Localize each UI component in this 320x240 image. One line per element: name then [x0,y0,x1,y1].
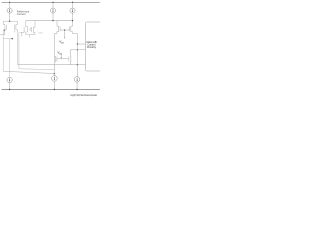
wire pair2/cascode bus [26,20,73,22]
wire into box y64.7 [77,64,85,66]
wire into box y49.8 [70,49,85,51]
wire second stage input line [19,32,55,69]
node at (9.6,38) [11,38,13,40]
wire H lower (Q1 drain to node A) [3,71,54,73]
node bus at CS2 [52,20,53,21]
node V+ at x72.5 [72,2,73,3]
transistor Q5 (cascode left) [54,21,58,57]
transistor Q2 (pair1 right) [16,21,18,31]
wire H upper (Q2 drain to node B) [18,64,78,66]
V+ rail [2,1,100,3]
transistor Q6 (cascode right) [71,21,78,65]
current source I5 (left) [7,77,12,82]
svg-text:B1: B1 [61,42,64,44]
node V- at x77.1 [76,89,77,90]
node at (77.4,44) [77,43,78,44]
node V- at x9.6 [9,89,10,90]
label box text [86,41,97,49]
wire node B down to I6 [76,65,78,77]
svg-text:B2: B2 [59,53,62,55]
current source I1 (reference) [7,8,12,13]
V- rail [2,89,100,91]
wire pair1 tail bus [3,20,17,22]
svg-text:Copyright © 2016, Texas Instru: Copyright © 2016, Texas Instruments Inco… [70,93,97,97]
current source I2 [50,8,55,13]
wire Q7 source chain [53,63,55,76]
wire branch to I5 [3,39,12,78]
current source I6 [74,77,80,83]
current source I3 [70,8,75,13]
svg-text:Circuitry: Circuitry [87,46,97,49]
node pair1 tail [9,21,10,22]
wire gate bus Q5-Q6 [60,30,69,37]
label VB2 [57,51,62,56]
node bus at CS3 [72,20,73,21]
node V+ at x53 [52,2,53,3]
node V+ at x9.6 [9,2,10,3]
wire Q1 drain down to corner [2,31,4,71]
node A [54,73,56,75]
transistor Q1 (pair1 left) [3,21,5,31]
transistor Q4 (pair2 right) [30,21,35,35]
node IN+ tee [20,32,24,36]
transistor Q8 (2nd stage right) [69,50,72,65]
node V- at x54.4 [54,89,55,90]
transistor Q7 (2nd stage left) [54,56,55,62]
wire gate bus Q7-Q8 [57,54,69,59]
node at (77.4,49.8) [77,49,78,50]
wire CS3 stubs [72,2,74,20]
svg-text:BIAS1: BIAS1 [39,31,43,34]
wire into box y44 [77,43,85,45]
box Class AB control circuitry [86,22,102,71]
transistor Q3 (pair2 left) [26,21,30,38]
label copyright [70,93,97,97]
svg-text:Current: Current [17,12,26,16]
wire Q2 drain down to corner [17,31,19,65]
current source I4 [52,76,58,82]
wire CS1 stubs [9,2,11,21]
node gate bus [64,29,65,30]
node B [77,64,78,65]
label Reference Current [17,9,30,16]
wire CS2 stubs [52,2,54,20]
label VB1 [59,40,64,45]
